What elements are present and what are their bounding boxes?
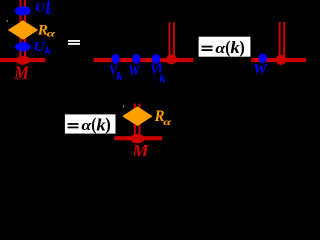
wire: middle diagram horizontal bar [94,58,194,62]
wire: left diagram horizontal bar [0,58,45,62]
label U_k [33,39,51,57]
node blob (middle diagram) [166,54,177,64]
stray dot (bottom diagram) [123,106,124,108]
label V_k^dagger [150,62,167,85]
label R_alpha (top) [37,23,56,40]
node M blob (left) [16,56,31,65]
svg-text:): ) [239,37,245,58]
label V_k [109,62,124,82]
svg-text:W: W [128,63,141,79]
tensor R_alpha (orange diamond) [8,20,38,39]
tensor R_alpha (bottom orange diamond) [122,106,152,126]
wire: bottom diagram double vertical lines [134,104,141,138]
svg-text:k: k [116,71,124,83]
svg-text:M: M [13,63,29,84]
wire: right diagram horizontal bar [251,58,306,62]
white box 2: = alpha(k) [65,114,116,133]
node M blob (bottom) [130,134,144,144]
wire: bottom diagram horizontal bar [114,136,162,140]
node blob (right diagram) [276,55,287,65]
svg-text:): ) [105,114,111,135]
tensor W (blue dot 2) [132,54,140,64]
svg-text:k: k [45,46,51,57]
equals sign (white) [68,40,80,45]
svg-text:M: M [131,141,149,156]
tensor V_k^dagger (blue dot 3) [152,54,160,64]
svg-text:k: k [159,73,166,85]
tensor W (right blue dot) [259,54,267,64]
svg-text:k: k [46,6,52,17]
wire: right diagram double vertical lines [279,22,286,60]
tensor U_k (bottom blue ellipse) [15,42,31,51]
stray dot (top diagram) [7,20,8,22]
tensor V_k (blue dot 1) [111,54,119,64]
label U_k^dagger [35,0,52,17]
svg-text:α: α [47,29,56,40]
wire: middle diagram double vertical lines [168,22,175,59]
wire: left diagram double vertical lines [19,0,26,59]
svg-text:W: W [253,61,269,77]
white box 1: = alpha(k) [199,37,251,57]
label R_alpha (bottom) [154,108,173,127]
tensor U_k dagger (top blue ellipse) [15,6,31,15]
